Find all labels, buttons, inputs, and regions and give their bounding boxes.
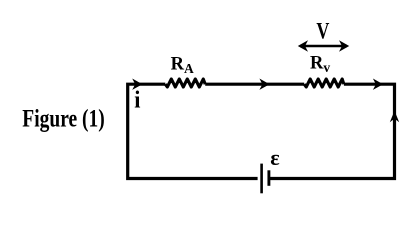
current arrow before top-right corner: [373, 79, 383, 90]
V range double arrow: [298, 40, 349, 51]
current arrow mid top wire: [259, 79, 269, 90]
wire: left vertical + top-left segment + bottom-left segment: [128, 84, 258, 178]
svg-text:i: i: [134, 87, 140, 114]
svg-text:V: V: [316, 18, 329, 43]
svg-text:Figure (1): Figure (1): [22, 106, 105, 133]
wire: top middle segment between R_A and R_v: [205, 83, 304, 86]
svg-text:Rv: Rv: [310, 54, 330, 75]
resistor R_A: [165, 79, 205, 87]
svg-text:RA: RA: [171, 54, 194, 76]
resistor R_v: [304, 79, 344, 87]
battery long plate: [260, 164, 263, 194]
svg-text:ε: ε: [270, 145, 279, 170]
wire: top-right segment + right vertical + bottom-right segment: [270, 84, 395, 178]
current arrow on top-left wire: [132, 79, 142, 90]
battery short plate: [267, 170, 270, 186]
current arrow on right wire pointing up: [390, 111, 399, 123]
